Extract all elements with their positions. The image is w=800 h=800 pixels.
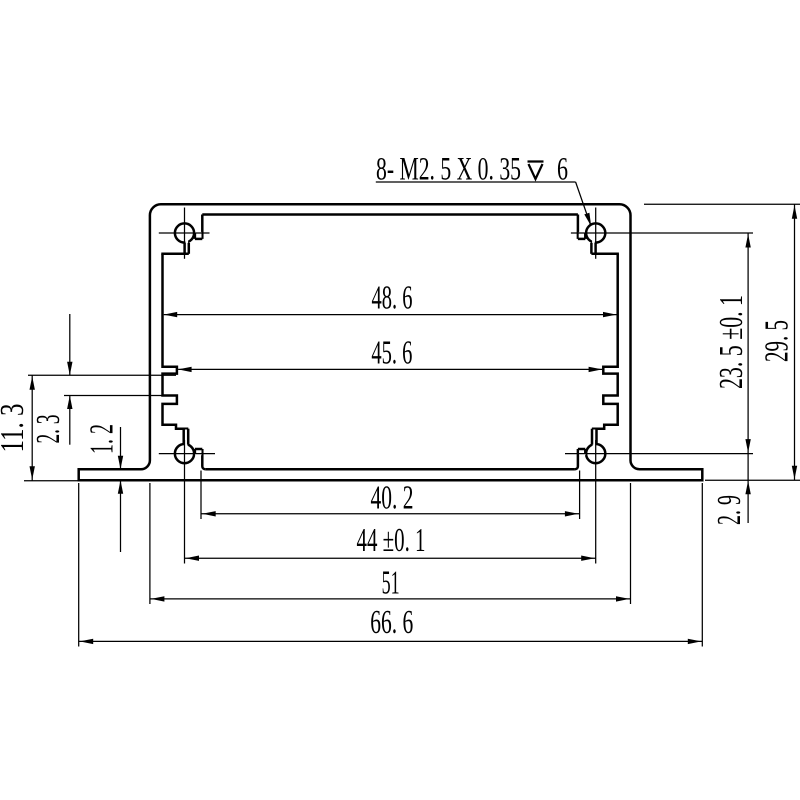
top-right boss slot left side bbox=[590, 243, 593, 254]
top-right screw boss circle bbox=[586, 223, 605, 242]
leader note 8- M2.5 X 0.35 depth 6 bbox=[376, 181, 576, 183]
dimension 2.3 rib spacing bbox=[64, 395, 176, 397]
bottom-right boss horizontal centerline + 23.5/2.9 extension bbox=[565, 453, 753, 455]
dimension 45.6 rib-to-rib width bbox=[178, 368, 602, 370]
svg-text:2. 9: 2. 9 bbox=[711, 495, 748, 525]
svg-text:48. 6: 48. 6 bbox=[372, 279, 413, 316]
ledge below top-right boss bbox=[591, 253, 619, 256]
depth symbol bbox=[528, 162, 544, 180]
erase notch opening top-right boss bbox=[579, 232, 585, 238]
left bottom notch right side bbox=[202, 449, 205, 469]
right bottom notch left side bbox=[575, 449, 578, 469]
inner ceiling wall line bbox=[202, 213, 578, 216]
svg-text:51: 51 bbox=[382, 565, 400, 602]
dimension 11.3 rib to flange bottom bbox=[28, 374, 176, 376]
top-left boss slot right side bbox=[188, 243, 191, 254]
bottom-left boss slot right side bbox=[187, 429, 190, 445]
dimension 1.2 flange thickness bbox=[120, 427, 122, 469]
erase notch opening bottom-left boss bbox=[195, 449, 201, 455]
bottom-right boss slot right side bbox=[595, 429, 598, 445]
top-left boss horizontal centerline bbox=[159, 232, 210, 234]
dimension 23.5 ±0.1 boss center spacing vertical bbox=[747, 233, 749, 454]
erase notch opening top-left boss bbox=[195, 232, 201, 238]
enclosure outer profile with flange bbox=[79, 204, 703, 480]
top-right notch right side bbox=[584, 233, 587, 239]
svg-text:11. 3: 11. 3 bbox=[0, 404, 31, 453]
top-right boss vertical centerline bbox=[595, 208, 597, 259]
bottom-left screw boss circle bbox=[175, 444, 194, 463]
bottom-left boss slot left side bbox=[182, 429, 185, 445]
svg-text:66. 6: 66. 6 bbox=[370, 604, 413, 641]
bottom-right notch top bbox=[578, 448, 585, 451]
top-left boss vertical centerline bbox=[184, 208, 186, 259]
cavity floor bbox=[205, 468, 575, 471]
svg-text:2. 3: 2. 3 bbox=[30, 415, 67, 444]
dimension 40.2 floor width, with extension lines bbox=[200, 471, 202, 520]
bottom-right screw boss circle bbox=[586, 444, 605, 463]
dimension 2.9 boss center above flange bottom bbox=[747, 454, 749, 523]
right notch left side drop bbox=[577, 215, 580, 239]
erase slot opening top-left boss bbox=[185, 239, 188, 254]
bottom-left notch top bbox=[195, 448, 202, 451]
erase slot opening bottom-left boss bbox=[184, 430, 187, 448]
svg-text:29. 5: 29. 5 bbox=[758, 320, 795, 362]
erase notch opening bottom-right boss bbox=[579, 449, 585, 455]
bottom-right notch right side bbox=[584, 449, 587, 454]
svg-text:44 ±0. 1: 44 ±0. 1 bbox=[357, 522, 426, 559]
svg-text:8- M2. 5 X 0. 35: 8- M2. 5 X 0. 35 bbox=[376, 151, 521, 187]
erase slot opening top-right boss bbox=[592, 239, 595, 254]
svg-text:45. 6: 45. 6 bbox=[371, 335, 412, 372]
bottom-left boss vertical centerline + 44 extension bbox=[184, 440, 186, 564]
top-left boss slot left side bbox=[183, 243, 186, 254]
dimension 29.5 overall height bbox=[644, 203, 800, 205]
left inner wall with PCB ribs bbox=[163, 254, 189, 429]
top-right boss slot right side bbox=[594, 243, 597, 254]
top-left notch bottom bbox=[195, 238, 202, 241]
bottom-right boss slot left side bbox=[591, 429, 594, 445]
top-right notch bottom bbox=[578, 238, 585, 241]
dimension 48.6 inner cavity width bbox=[164, 314, 617, 316]
top-left screw boss circle bbox=[175, 223, 194, 242]
dimension 66.6 flange width, with extension lines bbox=[78, 483, 80, 647]
svg-text:40. 2: 40. 2 bbox=[371, 479, 414, 516]
svg-text:1. 2: 1. 2 bbox=[84, 424, 121, 454]
bottom-right boss vertical centerline + 44 extension bbox=[595, 440, 597, 564]
top-left notch left side bbox=[194, 233, 197, 239]
bottom-left notch left side bbox=[194, 449, 197, 454]
ledge below top-left boss bbox=[161, 253, 189, 256]
erase slot opening bottom-right boss bbox=[593, 430, 596, 448]
left notch right side drop bbox=[201, 215, 204, 239]
svg-text:23. 5 ±0. 1: 23. 5 ±0. 1 bbox=[713, 295, 750, 389]
bottom-left boss horizontal centerline bbox=[159, 453, 215, 455]
top-right boss horizontal centerline + 23.5 extension bbox=[571, 232, 753, 234]
svg-text:6: 6 bbox=[557, 151, 568, 187]
dimension 44 ±0.1 boss centers bbox=[185, 557, 596, 559]
dimension 51 outer width, with extension lines bbox=[149, 483, 151, 604]
right inner wall with PCB ribs bbox=[592, 254, 618, 429]
